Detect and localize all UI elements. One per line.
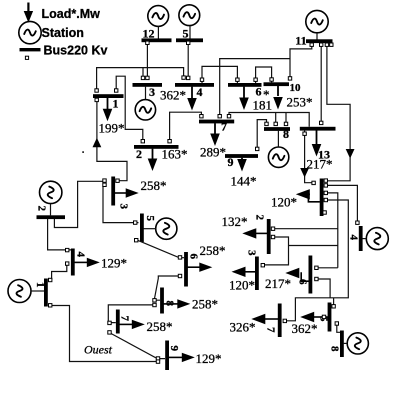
svg-text:258*: 258* [200, 243, 226, 258]
connection squares right bus R1 [312, 181, 315, 184]
load arrow left bus 4 with label 129* [74, 256, 127, 271]
connection squares bracket bus4-bus6 [200, 78, 203, 81]
connection squares left bus 8 [153, 299, 156, 302]
svg-text:4: 4 [348, 235, 360, 241]
wire bus4L to bus1L [52, 264, 67, 280]
connection squares above bus 1 [95, 89, 98, 92]
load arrow right bus R1 with label 120* [271, 189, 320, 209]
wire bus 8 to G8 [277, 131, 279, 147]
right bus 2 [267, 219, 271, 254]
connection squares right bus 5 [332, 305, 335, 308]
wire bus1 down to bus3L [97, 100, 127, 181]
wire bus6R to y297 trunk [317, 268, 338, 298]
svg-text:120*: 120* [229, 278, 255, 293]
wire bracket bus4-bus6 [202, 66, 237, 83]
legend station symbol [19, 21, 41, 43]
bus 2 [134, 145, 179, 149]
connection squares above bus 3 [141, 76, 144, 79]
connection square right bus 3 [261, 264, 264, 267]
svg-text:12: 12 [143, 27, 155, 41]
load arrow bus 7 with label 289* [200, 123, 226, 159]
svg-text:Load*.Mw: Load*.Mw [42, 7, 101, 21]
bus 7 [199, 120, 234, 124]
station circle for left bus 5 [156, 218, 177, 239]
svg-text:129*: 129* [101, 256, 127, 271]
load arrow bus 4 with label 362* [160, 87, 197, 111]
right bus 7 [278, 304, 282, 338]
svg-text:10: 10 [290, 82, 302, 94]
left bus 1 [44, 279, 48, 307]
svg-text:120*: 120* [271, 195, 297, 210]
svg-text:3: 3 [118, 204, 130, 210]
svg-text:8: 8 [283, 127, 289, 141]
wire R1 to bus5R top [285, 200, 348, 321]
svg-text:144*: 144* [231, 174, 257, 189]
wire bus8L to bus7L [108, 305, 154, 323]
load arrow right bus 5 with label 362* [292, 312, 328, 336]
flow arrow on wire bus13 down [300, 168, 309, 178]
svg-text:2: 2 [36, 206, 48, 212]
svg-text:163*: 163* [162, 147, 188, 162]
left bus 5 [140, 214, 144, 243]
bus 12 [142, 38, 172, 42]
svg-text:4: 4 [197, 85, 203, 99]
connection square right bus 7 [283, 319, 286, 322]
svg-text:5: 5 [144, 216, 156, 222]
load arrow left bus 8 with label 258* [164, 297, 219, 312]
svg-text:11: 11 [295, 34, 306, 48]
svg-text:362*: 362* [160, 88, 186, 103]
wire station2L stem [50, 204, 52, 216]
generator G5 [179, 5, 200, 26]
generator G8 below bus 8 [268, 147, 288, 167]
svg-text:Ouest: Ouest [84, 343, 113, 357]
station circle 1 left [8, 280, 31, 303]
svg-text:9: 9 [168, 346, 180, 352]
svg-text:326*: 326* [230, 320, 256, 335]
wire station1L stem [31, 290, 44, 292]
wire bus2c to bus7c [170, 112, 202, 141]
svg-text:8: 8 [329, 346, 341, 352]
svg-text:258*: 258* [141, 178, 167, 193]
wire R1 to bus2R [273, 193, 338, 268]
load arrow bus 10 with label 253* [273, 86, 312, 110]
wire bus2L to bus4L [48, 219, 71, 250]
legend load arrow symbol [24, 3, 33, 23]
wire bus13 to right bus R1 [305, 130, 314, 183]
wire bus 12 to bus 3 [146, 42, 148, 77]
load arrow left bus 6 with label 258* [188, 243, 226, 272]
station circle for right bus 4 [366, 228, 388, 250]
wire bus5L to station [144, 228, 156, 230]
wire bus7c to bus8c bracket [229, 113, 309, 127]
bus 6 [228, 83, 262, 87]
connection squares left bus 1 [49, 278, 52, 281]
svg-text:362*: 362* [292, 321, 318, 336]
load arrow right bus 3 with label 120* [229, 267, 255, 293]
flow arrow on wire bus11-right [346, 149, 355, 159]
load arrow bus 9 with label 144* [231, 158, 257, 189]
connection squares above bus 2 [141, 140, 144, 143]
left bus 2 [37, 215, 66, 219]
connection squares left bus 9 [156, 357, 159, 360]
bus 11 [306, 39, 333, 43]
svg-text:13: 13 [318, 148, 330, 162]
connection squares right bus 6 [315, 266, 318, 269]
connection squares right bus 2 [271, 227, 274, 230]
svg-text:129*: 129* [196, 351, 222, 366]
bus 5 [176, 38, 203, 42]
load arrow right bus 6 with label 217* [265, 268, 309, 291]
right bus R1 [320, 179, 324, 217]
svg-text:3: 3 [246, 250, 258, 256]
load arrow bus 1 with label 199* [99, 98, 125, 136]
wire bus11 to right network [327, 43, 350, 181]
load arrow left bus 3 with label 258* [115, 178, 167, 198]
wire bus8R to station [344, 342, 348, 344]
svg-text:253*: 253* [287, 95, 313, 110]
svg-text:217*: 217* [265, 276, 291, 291]
wire bus3L to bus5L [103, 186, 139, 222]
bus 4 [175, 83, 214, 87]
svg-text:7: 7 [221, 120, 227, 134]
wire bus11 to bus10 and bus7 [220, 43, 312, 116]
right bus 4 [359, 226, 363, 251]
wire G12 to bus 12 [157, 26, 159, 39]
generator G12 [148, 6, 169, 27]
svg-text:1: 1 [113, 97, 119, 111]
wire bus8c to bus9c [257, 120, 266, 149]
right bus 8 [340, 331, 344, 358]
svg-text:5: 5 [183, 27, 189, 41]
svg-text:9: 9 [228, 155, 234, 169]
svg-text:2: 2 [136, 147, 142, 161]
connection squares left bus 7 [108, 321, 111, 324]
load arrow bus 6 with label 181 [239, 87, 272, 113]
wire bus2R to bus3R [263, 237, 289, 265]
bus 3 [133, 83, 163, 87]
station circle for right bus 8 [347, 333, 368, 354]
load arrow bus 13 with label 217* [307, 130, 333, 171]
wire bus 5 to bus 4 [187, 42, 189, 77]
left bus 9 [165, 341, 169, 371]
load arrow right bus 2 with label 132* [222, 214, 268, 239]
legend connection square symbol [25, 56, 28, 59]
wire bus 3 to G3 [145, 87, 147, 100]
load arrow left bus 9 with label 129* [169, 351, 222, 366]
connection square left bus 5 [134, 221, 137, 224]
load arrow left bus 7 with label 258* [119, 319, 172, 334]
connection square above bus 13 [320, 121, 323, 124]
connection square bus4R top [356, 221, 359, 224]
legend bus symbol [20, 48, 41, 51]
wire bus6L to bus8L [154, 276, 180, 300]
bus 13 [300, 127, 336, 131]
wire bracket bus6-bus10 [256, 67, 272, 83]
svg-text:1: 1 [34, 282, 46, 288]
station circle 2 left [40, 181, 62, 203]
right bus 3 [255, 257, 259, 291]
svg-text:4: 4 [75, 252, 87, 258]
wire trunk to bus5R [333, 298, 335, 306]
connection squares left bus 3 [103, 179, 106, 182]
left bus 4 [71, 249, 75, 276]
svg-text:258*: 258* [192, 297, 218, 312]
svg-text:132*: 132* [222, 214, 248, 229]
connection squares bracket bus6-bus10 [254, 78, 257, 81]
left bus 6 [184, 252, 188, 287]
wire bus5L to bus6L diagonal [138, 240, 184, 257]
generator G3 below bus 3 [135, 100, 155, 120]
wire bus1L to bus9L [50, 306, 157, 362]
flow arrow on wire bus1 down [93, 138, 102, 148]
connection squares left bus 6 [178, 256, 181, 259]
wire bus7L to bus9L diagonal [109, 333, 165, 359]
connection square bus 10 right [288, 77, 291, 80]
svg-text:Bus220 Kv: Bus220 Kv [44, 43, 108, 57]
wire R1 to bus4R [326, 185, 358, 222]
wire bus4R to station [362, 238, 366, 240]
connection squares above bus 4 [182, 76, 185, 79]
wire bus5R to bus8R [337, 324, 341, 333]
right bus 5 [328, 303, 332, 332]
svg-text:199*: 199* [99, 121, 125, 136]
svg-text:258*: 258* [147, 319, 173, 334]
svg-text:7: 7 [119, 316, 131, 322]
load arrow bus 2 with label 163* [148, 147, 188, 172]
wire bus1 to bus2 elbow [116, 76, 143, 141]
svg-text:6: 6 [256, 85, 262, 99]
connection squares top buses [146, 41, 149, 44]
connection square below bus 1 [95, 98, 98, 101]
bus 9 [225, 154, 258, 158]
svg-text:7: 7 [265, 327, 277, 333]
wire trunk bus1-bus3-bus4 [97, 68, 184, 91]
wire bus11 to bus13 [320, 43, 322, 123]
svg-text:6: 6 [188, 254, 200, 260]
svg-text:3: 3 [149, 85, 155, 99]
wire G11 to bus 11 [316, 33, 318, 40]
load arrow right bus 7 with label 326* [230, 314, 279, 335]
svg-text:2: 2 [254, 215, 266, 221]
svg-text:Station: Station [42, 26, 84, 40]
svg-text:181: 181 [253, 98, 273, 113]
wire G5 to bus 5 [189, 26, 191, 39]
connection square below bus 13 [303, 132, 306, 135]
bus 1 [93, 94, 124, 98]
stray dot [82, 151, 84, 153]
connection squares left bus 4 [66, 248, 69, 251]
wire bus2L to bus3L [54, 181, 103, 227]
left bus 3 [111, 177, 115, 206]
generator G11 [306, 10, 328, 32]
right bus 6 [309, 256, 313, 294]
bus 8 [264, 127, 290, 131]
bus 10 [264, 82, 290, 86]
wire trunk stub to bus 3 [142, 68, 144, 78]
wire y245 link [289, 245, 338, 247]
connection squares above bus 7 [200, 115, 203, 118]
connection square bus 9 right [256, 147, 259, 150]
left bus 7 [116, 310, 120, 334]
svg-text:289*: 289* [200, 145, 226, 160]
connection squares above bus 8 [265, 122, 268, 125]
left bus 8 [160, 288, 164, 314]
